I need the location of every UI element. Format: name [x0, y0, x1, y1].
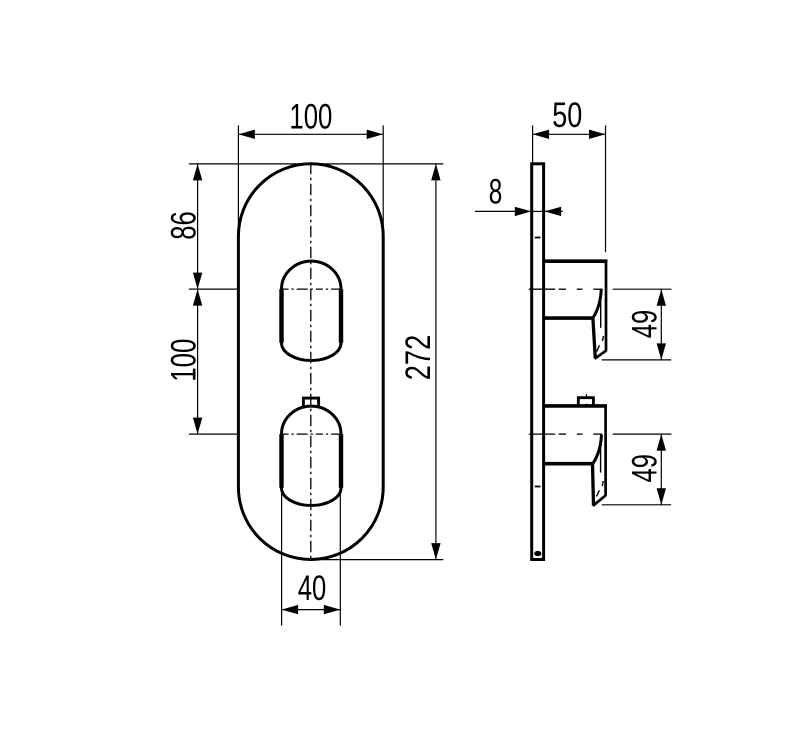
svg-text:86: 86 [164, 211, 203, 240]
plate side view dash mark lower [535, 486, 541, 488]
extension line at lower knob centerline [189, 433, 239, 435]
dimension 49 upper: dimension line [660, 289, 662, 360]
dimension 40: right arrow [324, 605, 341, 614]
dimension 86/100 left: dimension line [197, 164, 199, 434]
upper handle side view: right edge [605, 260, 608, 351]
lower handle side view: tip dash b [597, 490, 600, 496]
plate side view dash mark upper [535, 237, 541, 239]
upper handle side view: tip dash a [602, 336, 603, 341]
lower knob thick right side [339, 434, 343, 488]
svg-text:49: 49 [626, 454, 665, 483]
lower handle tab centerline tick below [586, 404, 588, 408]
dimension 49 lower: top arrow [657, 434, 666, 451]
dimension 272 right: dimension line [435, 164, 437, 560]
svg-text:100: 100 [164, 339, 203, 382]
lower handle side view: top line [544, 404, 607, 408]
dimension 49 upper: bottom arrow [657, 343, 666, 360]
svg-text:8: 8 [489, 173, 503, 212]
lower handle side view: grip curve [593, 435, 602, 464]
dimension 100 top: right arrow [367, 130, 384, 139]
vertical centerline front view [310, 163, 312, 559]
svg-text:272: 272 [399, 335, 438, 381]
svg-text:50: 50 [552, 96, 582, 135]
svg-text:40: 40 [298, 569, 327, 608]
svg-text:100: 100 [289, 98, 332, 137]
dimension 40 bottom: right extension line [339, 480, 341, 626]
upper handle side view: inner line [600, 302, 602, 328]
dimension 8: left line [475, 210, 531, 212]
bottom extension line y=559.6 [303, 559, 443, 561]
dimension 50: left arrow [533, 130, 550, 139]
lower handle tab centerline tick above [586, 394, 588, 396]
upper handle side view: bottom line of base [544, 316, 593, 320]
upper knob thick left side [279, 289, 283, 343]
svg-text:49: 49 [626, 310, 665, 339]
lower handle side view: tip bottom edge [593, 495, 606, 506]
upper handle side view: tip bottom edge [595, 350, 607, 359]
dimension 8: right line [545, 210, 563, 212]
dimension 49 upper: top arrow [657, 289, 666, 306]
dimension 50: left extension line [532, 125, 534, 163]
dimension 272: bottom arrow [431, 543, 440, 560]
plate side view bottom dot [534, 551, 541, 556]
lower handle side view: tip dash a [602, 481, 603, 486]
dimension 100 left: bottom arrow [193, 418, 202, 435]
lower knob outline [282, 406, 342, 505]
extension line at upper knob centerline [189, 288, 238, 290]
lower knob tab [303, 398, 318, 407]
dimension 8: crossing line [531, 210, 544, 212]
plate outline front view [238, 164, 383, 560]
dimension 40 bottom: left extension line [281, 480, 283, 626]
dimension 8: right arrow [545, 207, 562, 216]
lower handle side view: right edge [604, 405, 607, 496]
upper knob centerline [282, 288, 342, 290]
top extension line y=164 [189, 163, 443, 165]
dimension 100 top: left extension line [237, 125, 239, 234]
dimension 100 left: top arrow [193, 289, 202, 306]
lower knob centerline [282, 433, 342, 435]
dimension 40: dimension line [282, 609, 341, 611]
dimension 100 top: right extension line [382, 125, 384, 234]
dimension 50: right arrow [589, 130, 606, 139]
lower handle side view: inner line [600, 447, 602, 473]
dimension 86: bottom arrow [193, 273, 202, 290]
dimension 86: top arrow [193, 164, 202, 181]
dimension 49 upper: bottom extension line [602, 359, 672, 361]
dimension 100 top: dimension line [238, 133, 383, 135]
upper knob outline [282, 261, 342, 360]
dimension 272: top arrow [431, 164, 440, 181]
lower handle centerline [529, 433, 672, 435]
upper handle centerline [529, 288, 672, 290]
upper knob thick right side [339, 289, 343, 343]
lower handle side view: bottom line of base [544, 462, 593, 466]
upper handle side view: grip curve [593, 289, 601, 318]
dimension 50: right extension line [605, 125, 607, 252]
dimension 49 lower: bottom arrow [657, 488, 666, 505]
dimension 49 lower: bottom extension line [602, 504, 671, 506]
lower handle side view: lever left edge [593, 464, 594, 506]
upper handle side view: top line [544, 259, 607, 263]
lower handle side view: tab [578, 398, 593, 407]
lower knob thick left side [279, 434, 283, 488]
dimension 49 lower: dimension line [660, 434, 662, 505]
dimension 8: left arrow [515, 207, 532, 216]
dimension 50: dimension line [533, 133, 606, 135]
dimension 100 top: left arrow [238, 130, 255, 139]
dimension 40: left arrow [282, 605, 299, 614]
plate side view outline [532, 164, 544, 560]
upper handle side view: tip dash b [597, 345, 600, 351]
upper handle side view: lever left edge [593, 318, 595, 358]
